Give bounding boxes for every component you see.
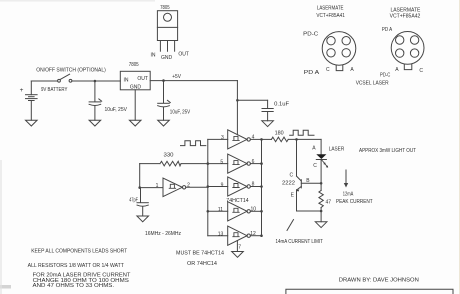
svg-text:MUST BE 74HCT14: MUST BE 74HCT14 xyxy=(176,251,224,257)
svg-text:GND: GND xyxy=(130,84,142,90)
svg-text:14mA CURRENT LIMIT: 14mA CURRENT LIMIT xyxy=(275,239,323,245)
svg-text:12: 12 xyxy=(250,231,256,237)
svg-text:7805: 7805 xyxy=(160,5,170,11)
svg-text:12mA: 12mA xyxy=(343,191,354,197)
svg-text:11: 11 xyxy=(218,207,223,213)
svg-text:PD A: PD A xyxy=(304,70,320,76)
svg-text:180: 180 xyxy=(275,131,284,137)
svg-text:PD A: PD A xyxy=(382,27,393,33)
svg-text:VCT+F85A42: VCT+F85A42 xyxy=(390,14,421,20)
svg-text:C: C xyxy=(289,172,293,178)
svg-text:LASERMATE: LASERMATE xyxy=(390,7,421,13)
svg-text:OR 74HC14: OR 74HC14 xyxy=(187,261,217,267)
svg-text:C: C xyxy=(419,68,423,74)
svg-text:8: 8 xyxy=(252,182,255,188)
svg-text:16MHz - 26MHz: 16MHz - 26MHz xyxy=(145,231,181,237)
svg-text:+5V: +5V xyxy=(172,74,181,80)
svg-text:VCSEL LASER: VCSEL LASER xyxy=(356,81,389,87)
svg-text:PEAK CURRENT: PEAK CURRENT xyxy=(336,199,373,205)
svg-text:OUT: OUT xyxy=(137,76,148,82)
svg-text:5: 5 xyxy=(220,159,223,165)
svg-text:74HCT14: 74HCT14 xyxy=(226,198,249,204)
svg-text:7805: 7805 xyxy=(129,62,139,68)
svg-text:7: 7 xyxy=(238,244,241,250)
svg-text:IN: IN xyxy=(151,53,156,59)
svg-text:0.1uF: 0.1uF xyxy=(274,101,289,107)
svg-text:KEEP ALL COMPONENTS LEADS SHOR: KEEP ALL COMPONENTS LEADS SHORT xyxy=(31,248,127,254)
svg-text:AND 47 OHMS TO 33 OHMS.: AND 47 OHMS TO 33 OHMS. xyxy=(33,283,115,289)
svg-text:LASERMATE: LASERMATE xyxy=(317,5,344,11)
svg-text:PD-C: PD-C xyxy=(380,72,391,78)
svg-text:9: 9 xyxy=(221,182,224,188)
svg-text:9V BATTERY: 9V BATTERY xyxy=(41,87,68,93)
svg-text:2: 2 xyxy=(187,182,190,188)
svg-text:47: 47 xyxy=(326,199,332,205)
svg-text:LASER: LASER xyxy=(329,146,345,152)
svg-text:4: 4 xyxy=(252,135,255,141)
svg-text:C: C xyxy=(326,67,330,73)
svg-text:13: 13 xyxy=(218,232,224,238)
svg-text:OUT: OUT xyxy=(178,51,189,57)
svg-text:330: 330 xyxy=(164,152,174,158)
svg-text:PD-C: PD-C xyxy=(303,31,318,37)
svg-text:10uF, 25V: 10uF, 25V xyxy=(104,107,127,113)
svg-text:1: 1 xyxy=(156,183,159,189)
svg-text:6: 6 xyxy=(252,159,255,165)
svg-text:APPROX 3mW LIGHT OUT: APPROX 3mW LIGHT OUT xyxy=(359,148,416,154)
svg-text:GND: GND xyxy=(161,55,173,61)
svg-text:+: + xyxy=(20,87,24,94)
svg-text:VCT+F85A41: VCT+F85A41 xyxy=(316,13,345,19)
svg-text:ALL RESISTORS 1/8 WATT OR 1/4: ALL RESISTORS 1/8 WATT OR 1/4 WATT xyxy=(28,263,124,269)
svg-text:10: 10 xyxy=(251,207,257,213)
svg-text:IN: IN xyxy=(124,77,129,83)
svg-text:10uF, 25V: 10uF, 25V xyxy=(170,109,191,115)
svg-text:47pF: 47pF xyxy=(129,198,138,204)
svg-text:C: C xyxy=(313,163,317,169)
svg-text:ON/OFF SWITCH (OPTIONAL): ON/OFF SWITCH (OPTIONAL) xyxy=(36,68,106,74)
svg-text:DRAWN BY: DAVE JOHNSON: DRAWN BY: DAVE JOHNSON xyxy=(339,277,419,283)
svg-text:2222: 2222 xyxy=(282,181,295,187)
svg-text:3: 3 xyxy=(221,135,224,141)
